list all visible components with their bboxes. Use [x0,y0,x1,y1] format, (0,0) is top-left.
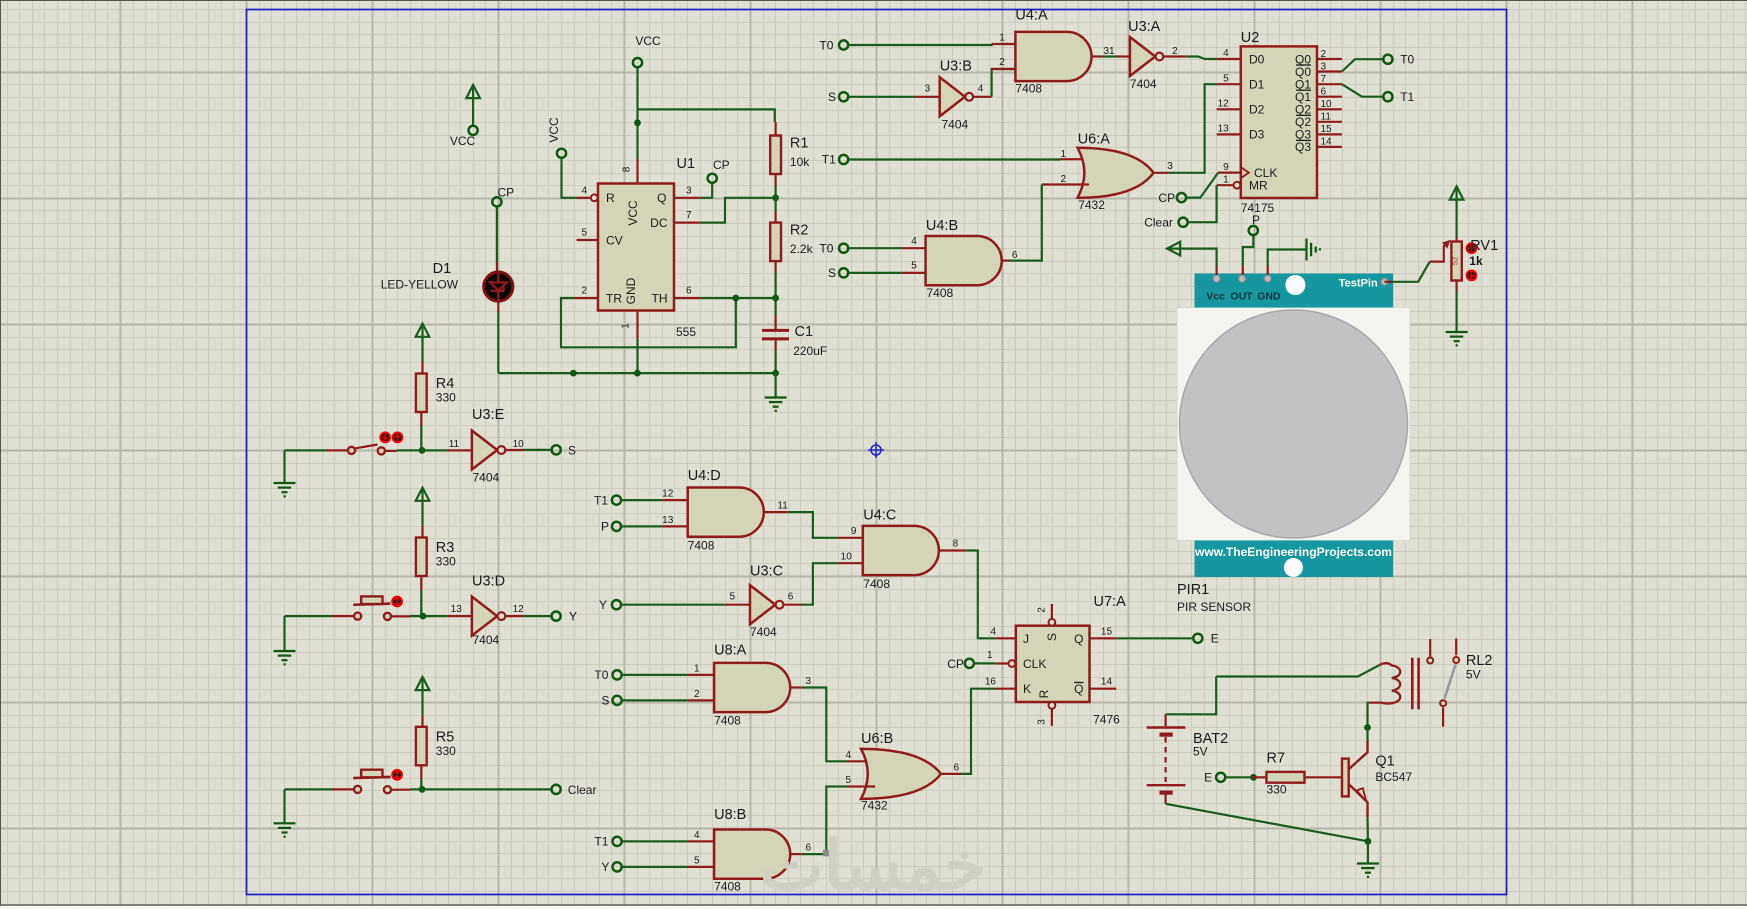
junction row S [419,447,426,454]
label S (U8:A) [601,694,609,708]
wire U4:A to U3:A [1103,55,1117,57]
U3:C output stub [784,604,801,606]
pin name VCC rotated [626,200,640,226]
svg-text:15: 15 [1321,124,1333,135]
PIR pad GND [1264,275,1271,282]
svg-text:6: 6 [686,286,692,297]
wire Q1 to T1 [1342,84,1383,97]
relay contact stub left [1429,639,1431,657]
value 7404 (U3:B) [942,118,969,132]
label U3:A [1128,19,1161,35]
BAT2 top lead [1164,714,1166,726]
label T1 (U6:A) [822,153,836,167]
pin name DC [650,216,668,230]
svg-text:T1: T1 [594,835,608,849]
LED cathode lead [497,302,499,312]
wire R5 to row Clear [420,779,422,789]
svg-text:11: 11 [449,439,460,450]
svg-text:16: 16 [985,677,997,688]
U2 CLK stub [1218,172,1241,174]
pin number 5 [581,228,587,239]
Q1 collector [1349,740,1368,769]
svg-text:P: P [1252,213,1260,227]
svg-text:1: 1 [999,33,1005,44]
relay contact (NC) [1427,658,1433,664]
svg-text:R7: R7 [1267,751,1286,767]
wire row Y left segment [285,615,333,617]
wire VCC to pin4 [562,159,577,198]
clock triangle (U2 CLK) [1241,167,1249,178]
pin number 4 (U8:B) [694,830,700,841]
wire U6:B to U7:A K [961,689,995,774]
svg-text:2: 2 [1321,49,1327,60]
origin marker [868,442,884,458]
U4:C output stub [939,549,967,551]
svg-text:S: S [568,444,576,458]
svg-text:4: 4 [845,750,851,761]
wire corner marker [823,850,830,857]
svg-text:Y: Y [601,860,609,874]
button actuator (row Clear) [392,770,402,780]
pin number 10 (U4:C) [841,552,853,563]
svg-text:14: 14 [1101,677,1113,688]
value 220uF [793,344,827,358]
wire DC to R1R2 junction [700,198,775,223]
pin number 5 (U3:C) [730,592,736,603]
label CP (U7:A) [947,657,964,671]
ground (row Y) [274,651,296,664]
svg-text:S: S [828,90,836,104]
wire E to R7 [1226,776,1253,778]
svg-text:2: 2 [1037,607,1048,613]
svg-text:13: 13 [1218,124,1230,135]
inverter U3:A (7404) [1130,37,1163,76]
svg-text:1: 1 [1060,149,1066,160]
resistor R3 [416,538,427,577]
pin 1 stub (GND) [636,311,638,339]
wire to ground (Q1) [1367,841,1369,863]
svg-text:GND: GND [1257,291,1281,303]
wire U4:D to U4:C pin9 [788,512,838,538]
svg-text:Q: Q [1074,682,1083,696]
terminal E (U7:A out) [1193,634,1202,643]
terminal S (out) [552,445,561,454]
power arrow VCC (above R4) [416,323,430,337]
U6:A output stub [1154,172,1169,174]
svg-text:7404: 7404 [1130,77,1157,91]
svg-text:15: 15 [1101,626,1113,637]
button pin stub left (row Y) [332,615,354,617]
svg-text:U2: U2 [1241,30,1260,46]
U3:B output stub [974,96,992,98]
svg-text:7404: 7404 [473,633,500,647]
svg-text:6: 6 [788,592,794,603]
svg-text:4: 4 [978,84,984,95]
pin number 6 (U6:B) [954,762,960,773]
pin 2 stub (TR) [574,297,598,299]
wire TH junction to C1 [774,298,776,315]
svg-text:12: 12 [1218,99,1230,110]
svg-text:4: 4 [1223,48,1229,59]
R7 right lead to base [1305,776,1343,778]
pin number 3 (U3:B) [925,84,931,95]
relay contact (common) [1453,657,1459,663]
AND gate U4:D (7408) [688,488,764,537]
terminal S (U3:B in) [839,92,848,101]
terminal CP (at U1 Q) [708,174,717,183]
svg-text:7408: 7408 [714,714,741,728]
value 1k [1469,254,1483,268]
wire row Clear ground drop [283,789,285,822]
terminal S (U4:B in) [839,268,848,277]
wire ground bus [498,372,775,374]
button contact right (row Clear) [384,786,391,793]
wire VCC terminal to branch [636,68,638,159]
label E (U7:A out) [1211,632,1219,646]
U3:E output stub [506,449,524,451]
R7 left lead [1252,776,1266,778]
pin name D1 (U2) [1249,78,1265,92]
svg-text:1: 1 [694,663,700,674]
svg-text:T1: T1 [1400,90,1414,104]
wire junction to R2 [774,198,776,212]
wire vcc to RV1 [1455,188,1457,238]
svg-text:CP: CP [1158,191,1175,205]
relay contact stub bottom [1442,708,1444,727]
svg-text:VCC: VCC [635,34,661,48]
junction E-R7 [1250,774,1257,781]
push button cap (row Clear) [361,770,382,778]
wire P to OUT pin [1243,235,1254,266]
pin number 12 (U4:D) [662,489,674,500]
junction coil-collector [1364,724,1371,731]
power arrow VCC (above RV1) [1450,185,1464,199]
RV1 wiper arrow [1430,240,1451,262]
pin number 2 [581,286,587,297]
svg-text:220uF: 220uF [793,344,827,358]
wire pin1 to bus [636,339,638,373]
AND gate U4:C (7408) [863,526,939,575]
svg-text:R4: R4 [436,376,455,392]
U3:D input stub [447,615,472,617]
label U8:A [714,642,747,658]
R1 bottom lead [774,173,776,186]
svg-text:E: E [1211,632,1219,646]
svg-text:VCC: VCC [626,200,640,226]
value BC547 [1375,770,1412,784]
wire T1 to U6:A pin1 [848,158,1059,161]
svg-text:5V: 5V [1466,667,1481,681]
svg-text:1: 1 [987,650,993,661]
pin name CV [606,234,623,248]
svg-text:D3: D3 [1249,128,1265,142]
wire S to U8:A pin2 [622,699,687,701]
pin number 3 [686,185,692,196]
svg-text:T1: T1 [594,493,608,507]
junction row Clear [419,786,426,793]
svg-text:BC547: BC547 [1375,770,1412,784]
U8:A pin2 stub [687,699,714,701]
wire Q0bar to T0 [1342,59,1383,71]
svg-text:3: 3 [925,84,931,95]
wire P to U4:D pin13 [621,525,661,527]
svg-text:7404: 7404 [750,625,777,639]
inverter U3:B (7404) [940,77,973,116]
label R2 [790,223,809,239]
wire row Y ground drop [283,616,285,650]
LED D1 symbol [484,272,513,301]
inverter U3:E (7404) [472,431,505,470]
PIR pad label OUT [1230,291,1253,303]
pin name Q3bar (U2) [1295,140,1311,154]
pin number 11 [449,439,460,450]
PIR GND pin stub [1267,266,1269,275]
svg-text:330: 330 [436,744,456,758]
R4 top lead [421,362,423,374]
svg-text:Y: Y [599,598,607,612]
button contact left (row Clear) [354,786,361,793]
transistor Q1 bar [1342,759,1349,797]
wire VCC branch to R1 column [638,109,775,122]
resistor R1 [770,136,781,175]
pin name R [606,191,615,205]
watermark text [760,828,987,904]
U4:D output stub [764,511,788,513]
svg-text:D1: D1 [1249,78,1265,92]
RV1 top lead [1455,238,1457,242]
label D1 [433,261,452,277]
label U2 [1241,30,1260,46]
junction bus-right [772,370,779,377]
resistor R4 [416,374,427,413]
value 7404 (U3:D) [473,633,500,647]
terminal Y (U8:B in) [613,862,622,871]
R5 top lead [421,715,423,727]
U4:A output stub [1091,55,1103,57]
svg-text:7: 7 [686,210,692,221]
svg-text:2.2k: 2.2k [790,242,814,256]
wire R3 to row Y [420,590,422,616]
pin number 8 (U4:C) [953,539,959,550]
PIR footer url [1194,545,1392,559]
label Q1 [1375,754,1394,770]
svg-text:4: 4 [990,626,996,637]
pin number 8 [622,166,633,172]
label E (R7) [1204,771,1212,785]
wire U8:B to U6:B pin5 [802,787,847,855]
svg-text:7404: 7404 [473,470,500,484]
label U3:B [940,58,972,74]
R4 bottom lead [420,412,422,426]
sheet border [247,10,1507,895]
pin name D0 (U2) [1249,52,1265,66]
wire collector to junction [1366,728,1368,741]
wire T0 to U4:A pin1 [849,44,992,45]
wire pin8 stub [636,159,638,184]
svg-text:7404: 7404 [942,118,969,132]
R3 bottom lead [420,576,422,590]
label T1 (U4:D) [594,493,608,507]
pin 4 bubble on U1 R [591,194,598,201]
svg-text:13: 13 [451,604,463,615]
pin number 2 (U3:A) [1172,46,1178,57]
terminal T0 (U8:A in) [613,670,622,679]
U8:A output stub [790,686,802,688]
pin number 5 (U4:B) [911,261,917,272]
pin number 4 (U6:B) [845,750,851,761]
U8:B pin4 stub [687,840,714,842]
pin name J (U7:A) [1023,632,1029,646]
label U4:C [863,508,896,524]
wire C1 to ground bus [774,350,776,373]
svg-text:GND: GND [624,277,638,304]
pin number 12 [513,604,525,615]
terminal E (R7 in) [1216,773,1225,782]
label U6:A [1078,131,1111,147]
pin number 2 (U6:A) [1060,174,1066,185]
wire RV1 to ground [1455,291,1457,332]
wire U3:C to U4:C pin10 [802,563,839,605]
svg-text:7432: 7432 [1078,198,1105,212]
IC U1 555 body [598,184,674,311]
pin number 13 (U2) [1218,124,1230,135]
switch contact left (row S) [348,447,355,454]
wire row S left segment [285,449,327,451]
wire S to U3:B [849,96,915,98]
pin 3 stub (Q) [674,197,700,199]
U2 pin 5 stub [1217,83,1241,85]
svg-text:5: 5 [911,261,917,272]
wire switch to junction (row S) [385,450,397,452]
label VCC (top-left) [450,134,476,148]
svg-text:TR: TR [606,291,622,305]
value 7408 (U4:C) [863,577,890,591]
push button bar (row Y) [353,604,390,605]
pin number 9 (U4:C) [851,526,857,537]
label U3:E [472,407,505,423]
svg-text:U3:A: U3:A [1128,19,1161,35]
U2 pin 2 stub [1317,58,1342,60]
svg-text:U7:A: U7:A [1094,594,1127,610]
label T0 (U4:B) [819,241,833,255]
label U4:D [688,468,721,484]
label U8:B [714,807,746,823]
terminal T1 (U4:D in) [612,496,621,505]
label Y (U8:B) [601,860,609,874]
label CP (at U1 Q) [713,158,730,172]
R2 bottom lead [774,261,776,272]
pin name K (U7:A) [1023,682,1031,696]
wire to inverter (row S) [397,449,447,451]
svg-text:T0: T0 [819,38,833,52]
pin number 11 (U2) [1321,112,1332,123]
value 7404 (U3:A) [1130,77,1157,91]
wire coil to collector junction [1368,703,1370,728]
svg-text:R: R [606,191,615,205]
value 330 [436,555,456,569]
svg-text:TestPin: TestPin [1339,277,1378,289]
label U1 [677,156,696,172]
svg-text:S: S [828,266,836,280]
value 74175 [1241,201,1275,215]
wire button to junction (row Y) [391,615,410,617]
U4:A pin2 stub [992,68,1016,70]
inverter U3:C (7404) [750,585,783,624]
pin 5 stub (CV) [577,239,598,241]
label S (out) [568,444,576,458]
value 7432 (U6:B) [861,799,888,813]
junction row Y [420,613,427,620]
wire emitter down [1366,817,1369,841]
svg-text:D0: D0 [1249,52,1265,66]
svg-text:330: 330 [436,391,456,405]
pin name R rotated (U7:A) [1037,689,1051,698]
pin number 4 (U4:B) [911,236,917,247]
U7:A CLK stub [995,662,1008,664]
svg-text:C1: C1 [795,324,814,340]
PIR sensor body [1177,308,1410,541]
RV1 percent marker [1451,257,1460,265]
wire T0 to U4:B pin4 [849,247,902,249]
pin number 13 (U4:D) [662,515,674,526]
svg-text:11: 11 [777,500,788,511]
button contact right (row Y) [384,613,391,620]
button actuator (row Y) [392,597,402,607]
pin number 1 [621,323,632,329]
svg-text:2: 2 [1060,174,1066,185]
svg-text:U8:B: U8:B [714,807,746,823]
resistor R2 [770,223,781,262]
label VCC rotated [547,117,561,143]
junction TH-R2C1 [772,295,779,302]
resistor R5 [416,727,427,766]
svg-text:www.TheEngineeringProjects.com: www.TheEngineeringProjects.com [1194,545,1392,559]
terminal Y (out) [552,612,561,621]
U8:B output stub [790,853,802,855]
PIR header hole [1285,275,1305,295]
wire to Y terminal [524,615,552,617]
button contact left (row Y) [354,613,361,620]
U4:D pin12 stub [662,499,688,501]
U7:A Qbar stub (pin 14) [1090,688,1117,690]
Q1 emitter [1349,784,1368,817]
battery BAT2 [1147,728,1186,804]
junction bus-left [570,370,577,377]
svg-text:10: 10 [513,439,525,450]
AND gate U4:A (7408) [1015,32,1091,81]
U7:A R stub (pin 3) [1051,709,1053,726]
pin number 1 (U2) [1223,174,1229,185]
svg-text:U4:D: U4:D [688,468,721,484]
svg-text:9: 9 [851,526,857,537]
label Clear (out) [568,783,597,797]
pin number 7 [686,210,692,221]
wire to inverter (row Y) [410,615,447,617]
U7:A S bubble [1049,619,1056,626]
wire U3:A to U2 D0 [1186,57,1216,60]
svg-text:CP: CP [947,657,964,671]
U2 pin 14 stub [1317,146,1342,148]
svg-text:D1: D1 [433,261,452,277]
relay blade [1445,665,1456,699]
pin number 15 (U7:A) [1101,626,1113,637]
switch contact right (row S) [378,447,385,454]
svg-text:VCC: VCC [450,134,476,148]
U3:A input stub [1117,55,1130,57]
AND gate U8:B (7408) [714,830,790,879]
relay RL2 coil [1369,663,1400,703]
pin number 6 (U4:B) [1012,250,1018,261]
